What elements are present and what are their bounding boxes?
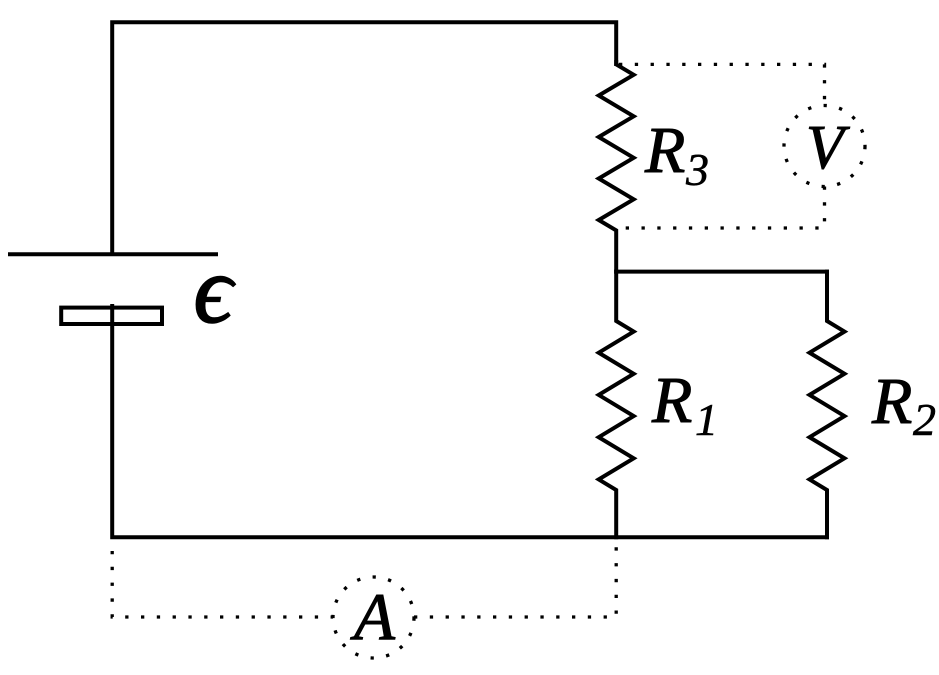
svg-text:R: R	[644, 114, 685, 187]
svg-text:R: R	[871, 365, 912, 438]
svg-text:3: 3	[685, 144, 709, 195]
svg-text:2: 2	[913, 394, 936, 445]
svg-text:A: A	[350, 580, 396, 654]
svg-text:R: R	[651, 364, 692, 437]
svg-text:ϵ: ϵ	[194, 236, 236, 343]
svg-text:V: V	[806, 114, 850, 182]
svg-text:1: 1	[695, 394, 718, 445]
